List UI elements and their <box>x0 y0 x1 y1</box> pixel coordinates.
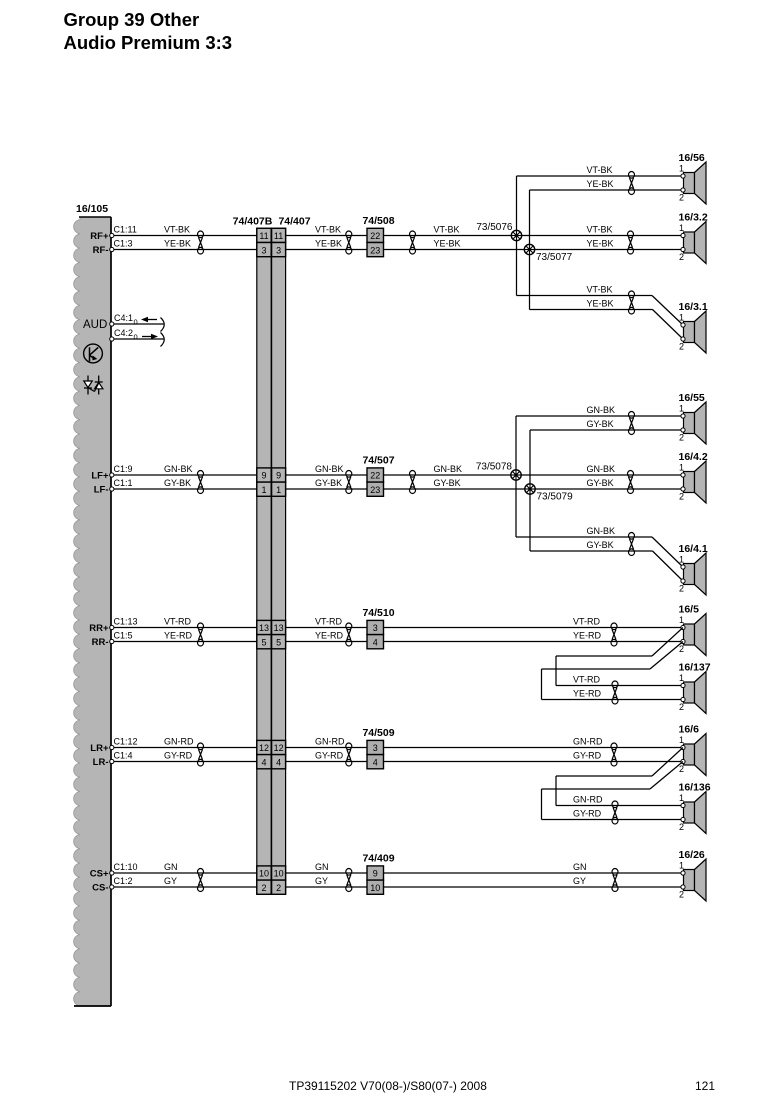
svg-text:YE-RD: YE-RD <box>315 631 344 641</box>
svg-text:16/136: 16/136 <box>679 782 711 794</box>
svg-text:C4:1: C4:1 <box>114 313 133 323</box>
label GY-RD a <box>164 751 193 761</box>
label LR- <box>93 757 109 768</box>
svg-text:VT-BK: VT-BK <box>587 285 613 295</box>
svg-text:GY-RD: GY-RD <box>573 751 602 761</box>
svg-text:16/55: 16/55 <box>679 392 705 404</box>
label 74/407B <box>233 216 273 228</box>
svg-text:121: 121 <box>695 1079 715 1093</box>
label GN 16/26 <box>573 862 587 872</box>
svg-text:TP39115202 V70(08-)/S80(07-) 2: TP39115202 V70(08-)/S80(07-) 2008 <box>289 1079 487 1093</box>
connector 74/507 <box>362 454 394 496</box>
pin CS+ C1:10 <box>110 871 114 875</box>
label RR- <box>92 637 109 648</box>
twisted pair RF a <box>198 231 204 254</box>
splice 73/5076 <box>511 230 521 240</box>
svg-text:GY: GY <box>315 876 328 886</box>
svg-text:LF+: LF+ <box>91 470 109 481</box>
svg-text:GN-RD: GN-RD <box>315 737 345 747</box>
pin RR- C1:5 <box>110 639 114 643</box>
wire LR- right <box>384 761 684 763</box>
svg-text:2: 2 <box>679 193 684 203</box>
svg-text:2: 2 <box>679 822 684 832</box>
wire RR+ right <box>384 627 684 629</box>
label GN-BK c <box>434 464 463 474</box>
svg-text:16/56: 16/56 <box>679 152 705 164</box>
svg-text:0: 0 <box>134 333 138 342</box>
svg-text:74/407B: 74/407B <box>233 216 273 228</box>
svg-text:C1:12: C1:12 <box>114 737 138 747</box>
symbol suppressor diodes <box>84 376 103 395</box>
label GY-BK 16/4.2 <box>587 478 614 488</box>
wire CS- mid <box>286 886 367 888</box>
svg-text:C1:1: C1:1 <box>114 478 133 488</box>
label 73/5077 <box>536 252 573 263</box>
svg-text:YE-BK: YE-BK <box>164 239 191 249</box>
svg-text:GN: GN <box>573 862 587 872</box>
label GY 16/26 <box>573 876 586 886</box>
svg-text:5: 5 <box>276 637 281 647</box>
label GY b <box>315 876 328 886</box>
label VT-BK c <box>434 225 460 235</box>
pin RR+ C1:13 <box>110 625 114 629</box>
label 74/407 <box>278 216 310 228</box>
label YE-BK a <box>164 239 191 249</box>
label CS+ <box>90 868 109 879</box>
svg-text:YE-RD: YE-RD <box>573 631 602 641</box>
svg-text:GY-BK: GY-BK <box>164 478 191 488</box>
label GY-BK 16/55 <box>587 419 614 429</box>
wire GY-RD tap <box>542 762 684 820</box>
svg-text:1: 1 <box>679 735 684 745</box>
twisted pair LR b <box>346 743 352 766</box>
label YE-BK 16/3.2 <box>587 239 614 249</box>
svg-text:2: 2 <box>679 702 684 712</box>
label VT-BK a <box>164 225 190 235</box>
twisted pair CS a <box>198 869 204 892</box>
twisted pair LR a <box>198 743 204 766</box>
wire CS- right <box>384 886 684 888</box>
label VT-BK b <box>315 225 341 235</box>
label C1:10 <box>114 862 138 872</box>
label YE-BK 16/56 <box>587 179 614 189</box>
label YE-RD a <box>164 631 193 641</box>
connector 74/509 <box>362 727 394 769</box>
twisted pair RR b <box>346 623 352 646</box>
svg-text:2: 2 <box>679 764 684 774</box>
svg-text:C1:2: C1:2 <box>114 876 133 886</box>
svg-text:1: 1 <box>679 615 684 625</box>
footer text <box>289 1079 487 1093</box>
twisted pair LF b <box>346 471 352 494</box>
svg-text:16/3.2: 16/3.2 <box>679 212 708 224</box>
svg-text:VT-BK: VT-BK <box>434 225 460 235</box>
wire LF- GY-BK left <box>112 488 257 490</box>
label YE-BK 16/3.1 <box>587 299 614 309</box>
pin LR+ C1:12 <box>110 745 114 749</box>
wire CS+ right <box>384 872 684 874</box>
svg-text:C1:11: C1:11 <box>114 225 137 235</box>
svg-text:3: 3 <box>373 623 378 633</box>
svg-text:16/5: 16/5 <box>679 604 700 616</box>
svg-text:VT-BK: VT-BK <box>587 165 613 175</box>
twisted pair 16/56 <box>629 172 635 195</box>
arrow in C4:1 <box>141 317 157 322</box>
label GN-RD 16/6 <box>573 737 603 747</box>
pin LF- C1:1 <box>110 487 114 491</box>
svg-text:YE-RD: YE-RD <box>164 631 193 641</box>
twisted pair 16/4.2 <box>628 471 634 494</box>
svg-text:10: 10 <box>274 869 284 879</box>
label VT-RD b <box>315 617 343 627</box>
wire RF+ right <box>384 235 684 237</box>
svg-text:16/4.2: 16/4.2 <box>679 451 708 463</box>
svg-text:1: 1 <box>679 673 684 683</box>
svg-text:16/3.1: 16/3.1 <box>679 301 708 313</box>
label GY-BK 16/4.1 <box>587 540 614 550</box>
svg-text:1: 1 <box>679 313 684 323</box>
wire VT-BK to 16/3.1 <box>517 296 684 326</box>
wire GY-BK to 16/55 <box>530 429 683 431</box>
svg-text:GY-BK: GY-BK <box>587 478 614 488</box>
svg-text:22: 22 <box>370 471 380 481</box>
svg-text:16/137: 16/137 <box>679 662 711 674</box>
svg-text:4: 4 <box>276 757 281 767</box>
pin cells 12 <box>257 740 286 754</box>
label C1:9 <box>114 464 133 474</box>
label C1:12 <box>114 737 138 747</box>
label YE-RD 16/5 <box>573 631 602 641</box>
svg-text:13: 13 <box>259 623 269 633</box>
svg-text:VT-RD: VT-RD <box>573 617 601 627</box>
svg-text:22: 22 <box>370 231 380 241</box>
svg-text:74/507: 74/507 <box>362 454 394 466</box>
pin cells 13 <box>257 620 286 634</box>
label GN-BK 16/55 <box>587 405 616 415</box>
pin C4:1 stub <box>110 322 164 326</box>
speaker 16/26 <box>679 849 707 901</box>
label C4:2 <box>114 328 138 342</box>
svg-text:2: 2 <box>679 584 684 594</box>
svg-text:GY-BK: GY-BK <box>587 540 614 550</box>
label LF+ <box>91 470 109 481</box>
splice 73/5079 <box>525 484 535 494</box>
wire RR- right <box>384 641 684 643</box>
wire LF+ GN-BK left <box>112 474 257 476</box>
pin LR- C1:4 <box>110 759 114 763</box>
label 16/105 <box>76 203 108 215</box>
svg-text:2: 2 <box>679 890 684 900</box>
label GY-RD b <box>315 751 344 761</box>
pin cells 9 <box>257 468 286 482</box>
wire LF- right <box>384 488 684 490</box>
label LF- <box>94 484 109 495</box>
svg-text:4: 4 <box>373 637 378 647</box>
twisted pair LF a <box>198 471 204 494</box>
wire end hook C4:2 <box>161 333 165 347</box>
label GN a <box>164 862 178 872</box>
twisted pair 16/3.2 <box>628 231 634 254</box>
twisted pair RF c <box>410 231 416 254</box>
svg-text:VT-RD: VT-RD <box>315 617 343 627</box>
svg-text:1: 1 <box>679 463 684 473</box>
svg-text:74/409: 74/409 <box>362 852 394 864</box>
wire CS- GY left <box>112 886 257 888</box>
svg-text:74/407: 74/407 <box>278 216 310 228</box>
svg-text:4: 4 <box>261 757 266 767</box>
speaker 16/5 <box>679 604 707 656</box>
svg-text:2: 2 <box>679 342 684 352</box>
svg-text:GN-RD: GN-RD <box>573 737 603 747</box>
svg-text:1: 1 <box>679 861 684 871</box>
svg-text:RR-: RR- <box>92 637 109 648</box>
pin RF+ C1:11 <box>110 233 114 237</box>
svg-text:VT-BK: VT-BK <box>315 225 341 235</box>
wire RF+ mid <box>286 235 367 237</box>
wire RR+ VT-RD left <box>112 627 257 629</box>
label VT-BK 16/56 <box>587 165 613 175</box>
speaker 16/3.1 <box>679 301 708 353</box>
wire GN-BK to 16/55 <box>516 415 683 417</box>
svg-text:C1:13: C1:13 <box>114 617 138 627</box>
svg-text:74/510: 74/510 <box>362 607 394 619</box>
wire CS+ GN left <box>112 872 257 874</box>
wire end hook C4:1 <box>161 318 165 332</box>
svg-text:Group 39 Other: Group 39 Other <box>64 9 200 30</box>
svg-text:13: 13 <box>274 623 284 633</box>
twisted pair 16/5 <box>611 623 617 646</box>
pin C4:2 stub <box>110 337 164 341</box>
svg-text:16/6: 16/6 <box>679 724 700 736</box>
wire RF- YE-BK left <box>112 249 257 251</box>
svg-text:3: 3 <box>261 245 266 255</box>
svg-text:YE-BK: YE-BK <box>587 299 614 309</box>
pin cells 1 <box>257 482 286 496</box>
svg-text:GY-RD: GY-RD <box>573 809 602 819</box>
wire YE-BK to 16/3.1 <box>530 310 684 340</box>
label VT-BK 16/3.2 <box>587 225 613 235</box>
svg-text:2: 2 <box>679 433 684 443</box>
svg-text:VT-RD: VT-RD <box>573 675 601 685</box>
connector 74/510 <box>362 607 394 649</box>
svg-text:5: 5 <box>261 637 266 647</box>
svg-text:VT-BK: VT-BK <box>587 225 613 235</box>
label C1:5 <box>114 631 133 641</box>
speaker 16/55 <box>679 392 707 444</box>
label GY-BK a <box>164 478 191 488</box>
svg-text:VT-RD: VT-RD <box>164 617 192 627</box>
label LR+ <box>90 743 109 754</box>
label C1:1 <box>114 478 133 488</box>
svg-text:9: 9 <box>276 471 281 481</box>
label GY-RD 16/6 <box>573 751 602 761</box>
svg-text:GN-BK: GN-BK <box>587 405 616 415</box>
twisted pair 16/26 <box>612 869 618 892</box>
wire GN-BK vertical <box>515 416 517 537</box>
label GN-RD a <box>164 737 194 747</box>
label YE-BK b <box>315 239 342 249</box>
title text <box>64 9 233 53</box>
label GN-BK 16/4.1 <box>587 526 616 536</box>
label 73/5076 <box>476 222 513 233</box>
wire RF+ VT-BK left <box>112 235 257 237</box>
wire VT-BK to 16/56 <box>517 175 684 177</box>
twisted pair 16/55 <box>629 412 635 435</box>
svg-text:GY: GY <box>573 876 586 886</box>
pin cells 11 <box>257 228 286 242</box>
svg-text:73/5077: 73/5077 <box>536 252 573 263</box>
svg-text:12: 12 <box>259 743 269 753</box>
svg-text:AUD: AUD <box>83 319 107 331</box>
svg-text:2: 2 <box>679 252 684 262</box>
wire GN-RD tap <box>556 748 683 806</box>
speaker 16/3.2 <box>679 212 708 264</box>
page number <box>695 1079 715 1093</box>
svg-text:C1:9: C1:9 <box>114 464 133 474</box>
svg-text:9: 9 <box>261 471 266 481</box>
speaker 16/56 <box>679 152 707 204</box>
svg-text:Audio Premium 3:3: Audio Premium 3:3 <box>64 32 233 53</box>
svg-text:C1:5: C1:5 <box>114 631 133 641</box>
wire YE-RD tap <box>542 642 684 700</box>
wire LF- mid <box>286 488 367 490</box>
svg-text:73/5076: 73/5076 <box>476 222 513 233</box>
speaker 16/4.2 <box>679 451 708 503</box>
svg-text:CS-: CS- <box>92 882 108 893</box>
label GY-BK c <box>434 478 461 488</box>
svg-text:GY-BK: GY-BK <box>315 478 342 488</box>
pin cells 5 <box>257 635 286 649</box>
svg-text:LR-: LR- <box>93 757 109 768</box>
svg-text:73/5079: 73/5079 <box>537 492 574 503</box>
label GN-BK b <box>315 464 344 474</box>
speaker 16/4.1 <box>679 543 708 595</box>
svg-text:GN-BK: GN-BK <box>315 464 344 474</box>
label GN-BK a <box>164 464 193 474</box>
pin LF+ C1:9 <box>110 473 114 477</box>
wire YE-BK vertical up/down <box>529 190 531 310</box>
wire LR- mid <box>286 761 367 763</box>
twisted pair 16/136 <box>612 801 618 824</box>
label C1:2 <box>114 876 133 886</box>
svg-text:LR+: LR+ <box>90 743 109 754</box>
svg-text:GN-BK: GN-BK <box>587 526 616 536</box>
twisted pair 16/3.1 <box>629 291 635 314</box>
label C1:3 <box>114 239 133 249</box>
pin RF- C1:3 <box>110 247 114 251</box>
label YE-RD b <box>315 631 344 641</box>
wire RR- mid <box>286 641 367 643</box>
svg-text:4: 4 <box>373 757 378 767</box>
twisted pair CS b <box>346 869 352 892</box>
svg-text:2: 2 <box>679 644 684 654</box>
twisted pair 16/137 <box>612 681 618 704</box>
svg-text:GY-BK: GY-BK <box>434 478 461 488</box>
svg-text:23: 23 <box>370 485 380 495</box>
wire LR+ GN-RD left <box>112 747 257 749</box>
label VT-RD 16/5 <box>573 617 601 627</box>
svg-text:1: 1 <box>679 793 684 803</box>
svg-text:73/5078: 73/5078 <box>476 462 513 473</box>
svg-text:RF+: RF+ <box>90 231 109 242</box>
svg-text:1: 1 <box>276 485 281 495</box>
wire VT-RD tap <box>556 628 683 686</box>
svg-text:10: 10 <box>259 869 269 879</box>
svg-text:74/508: 74/508 <box>362 215 394 227</box>
connector 74/409 <box>362 852 394 894</box>
wire GN-BK to 16/4.1 <box>516 537 683 567</box>
twisted pair RR a <box>198 623 204 646</box>
svg-text:C1:10: C1:10 <box>114 862 138 872</box>
pin CS- C1:2 <box>110 885 114 889</box>
svg-text:1: 1 <box>261 485 266 495</box>
svg-text:GN-BK: GN-BK <box>434 464 463 474</box>
label CS- <box>92 882 108 893</box>
label GY-BK b <box>315 478 342 488</box>
svg-text:9: 9 <box>373 869 378 879</box>
svg-text:11: 11 <box>274 231 283 241</box>
svg-text:VT-BK: VT-BK <box>164 225 190 235</box>
symbol K-circle <box>84 344 103 363</box>
svg-text:RR+: RR+ <box>89 623 109 634</box>
label C1:11 <box>114 225 137 235</box>
splice 73/5078 <box>511 470 521 480</box>
svg-text:YE-BK: YE-BK <box>315 239 342 249</box>
twisted pair RF b <box>346 231 352 254</box>
speaker 16/136 <box>679 782 711 834</box>
pin cells 10 <box>257 866 286 880</box>
svg-text:1: 1 <box>679 404 684 414</box>
svg-text:1: 1 <box>679 555 684 565</box>
svg-text:YE-BK: YE-BK <box>587 239 614 249</box>
wire GY-BK vertical <box>529 430 531 551</box>
label GN-RD b <box>315 737 345 747</box>
wire LF+ mid <box>286 474 367 476</box>
svg-text:3: 3 <box>373 743 378 753</box>
label RF- <box>93 245 109 256</box>
svg-text:GN-BK: GN-BK <box>587 464 616 474</box>
svg-text:2: 2 <box>261 883 266 893</box>
svg-text:1: 1 <box>679 223 684 233</box>
twisted pair 16/4.1 <box>629 533 635 556</box>
label C1:4 <box>114 751 133 761</box>
wire VT-BK vertical up/down <box>516 176 518 296</box>
svg-text:RF-: RF- <box>93 245 109 256</box>
arrow out C4:2 <box>142 334 158 339</box>
svg-text:GY: GY <box>164 876 177 886</box>
label GN-RD 16/136 <box>573 795 603 805</box>
speaker 16/137 <box>679 662 711 714</box>
label VT-RD 16/137 <box>573 675 601 685</box>
wire LF+ right <box>384 474 684 476</box>
svg-text:3: 3 <box>276 245 281 255</box>
speaker 16/6 <box>679 724 707 776</box>
label GY a <box>164 876 177 886</box>
svg-text:16/26: 16/26 <box>679 849 705 861</box>
wire LR+ right <box>384 747 684 749</box>
label C4:1 <box>114 313 138 327</box>
label RF+ <box>90 231 109 242</box>
connector bar 74/407 <box>272 228 286 893</box>
svg-text:74/509: 74/509 <box>362 727 394 739</box>
connector bar 74/407B <box>257 228 271 893</box>
wire LR- GY-RD left <box>112 761 257 763</box>
wire YE-BK to 16/56 <box>530 189 684 191</box>
label VT-RD a <box>164 617 192 627</box>
svg-text:1: 1 <box>679 164 684 174</box>
label AUD <box>83 319 107 331</box>
wire LR+ mid <box>286 747 367 749</box>
